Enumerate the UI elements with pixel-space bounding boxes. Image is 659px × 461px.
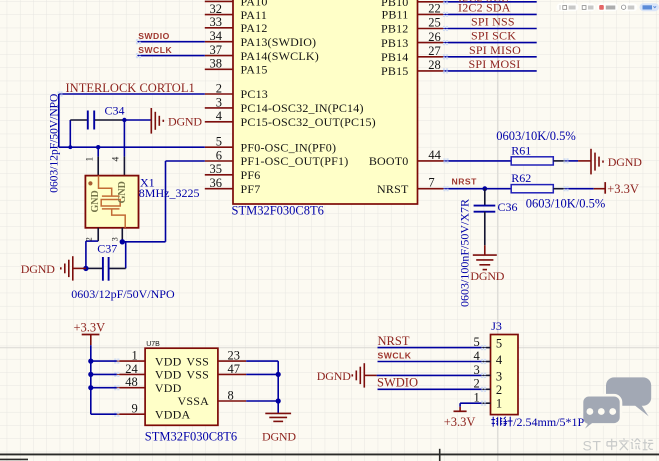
svg-text:1: 1 <box>132 349 138 363</box>
svg-text:SWDIO: SWDIO <box>138 31 170 41</box>
svg-text:DGND: DGND <box>168 115 202 129</box>
junction node DGND/C37 <box>83 266 88 271</box>
wire SWDIO to J3-2 <box>378 388 482 390</box>
pin 27 PB14 <box>381 44 443 64</box>
svg-text:2: 2 <box>216 81 222 95</box>
svg-text:PB12: PB12 <box>381 22 408 36</box>
pin 1 (J3) <box>474 391 503 411</box>
svg-text:0603/12pF/50V/NPO: 0603/12pF/50V/NPO <box>71 287 175 301</box>
wire net PB10 row <box>443 0 537 4</box>
svg-text:+3.3V: +3.3V <box>607 182 639 196</box>
wire C34 junction to DGND <box>124 119 150 121</box>
wire X1 pin2 lead <box>86 228 98 269</box>
pin label 1 (X1) <box>86 157 96 162</box>
svg-text:0603/10K/0.5%: 0603/10K/0.5% <box>526 197 606 211</box>
svg-text:PA14(SWCLK): PA14(SWCLK) <box>241 49 319 63</box>
wire C37 right leg <box>109 242 125 269</box>
designator J3 <box>491 319 502 333</box>
svg-text:R62: R62 <box>511 171 531 185</box>
pin 35 PF6 <box>205 162 261 182</box>
svg-text:NRST: NRST <box>377 182 409 196</box>
wire X1 pin3 to PF1 riser <box>122 161 165 242</box>
svg-text:DGND: DGND <box>21 262 55 276</box>
value label C36 <box>498 200 518 214</box>
svg-text:2: 2 <box>496 383 502 397</box>
wire SWCLK to J3-4 <box>378 361 482 363</box>
net label SWCLK <box>138 45 172 55</box>
wire vertical from INTERLOCK to PF0 net <box>58 94 60 147</box>
wire SWDIO <box>136 39 205 44</box>
svg-text:PB15: PB15 <box>381 64 408 78</box>
ground DGND right of R61 <box>591 149 642 175</box>
ground DGND below C36 <box>470 255 504 283</box>
svg-text:47: 47 <box>228 362 241 376</box>
svg-text:6: 6 <box>216 148 222 162</box>
wire net SPI MOSI <box>443 57 537 74</box>
wire BOOT0 to R61 <box>443 158 511 163</box>
svg-text:0603/12pF/50V/NPO: 0603/12pF/50V/NPO <box>49 94 61 193</box>
designator U7B <box>146 341 160 348</box>
svg-text:25: 25 <box>428 16 441 30</box>
junction node VDD rail 3 <box>88 385 93 390</box>
pin label 4 (X1) <box>112 157 122 162</box>
svg-text:STM32F030C8T6: STM32F030C8T6 <box>145 430 237 444</box>
wire net SPI NSS <box>443 15 537 32</box>
capacitor C37 <box>88 257 109 281</box>
net label I2C2 SCL (cut off at top) <box>458 0 509 5</box>
svg-text:PA11: PA11 <box>241 8 268 22</box>
svg-text:PF1-OSC_OUT(PF1): PF1-OSC_OUT(PF1) <box>241 154 349 168</box>
svg-text:3: 3 <box>216 95 222 109</box>
pin 32 PA11 <box>205 2 267 22</box>
pin 26 PB13 <box>381 30 443 50</box>
wire VDD row 2 <box>91 373 117 375</box>
wire PF0 OSC_IN net <box>59 146 205 148</box>
svg-text:1: 1 <box>86 157 96 162</box>
svg-text:VDDA: VDDA <box>155 407 191 421</box>
svg-text:VSSA: VSSA <box>178 394 210 408</box>
svg-text:28: 28 <box>428 58 441 72</box>
svg-text:PF0-OSC_IN(PF0): PF0-OSC_IN(PF0) <box>241 140 337 154</box>
svg-text:34: 34 <box>210 29 223 43</box>
svg-text:4: 4 <box>496 353 503 367</box>
pin 34 PA13(SWDIO) <box>205 29 316 49</box>
svg-text:SWCLK: SWCLK <box>378 351 412 361</box>
value label STM32F030C8T6 (U7B) <box>145 430 237 444</box>
value label 排针/2.54mm/5*1P (J3) <box>491 415 584 429</box>
junction node C34 left leg <box>68 145 72 149</box>
svg-text:VDD: VDD <box>155 381 182 395</box>
svg-text:R61: R61 <box>511 143 531 157</box>
pin label 2 (X1) <box>85 237 94 241</box>
net label SWCLK (J3) <box>378 351 412 361</box>
wire VDD row 3 <box>91 387 117 389</box>
ground DGND bottom-left <box>21 256 86 280</box>
svg-text:8: 8 <box>228 388 234 402</box>
svg-text:SWDIO: SWDIO <box>377 376 418 390</box>
wire VDD row 1 <box>91 360 117 362</box>
wire R61 to DGND <box>553 158 590 163</box>
junction node X1 pin3 / C37 / PF1 <box>120 239 125 244</box>
svg-text:GND: GND <box>117 181 128 203</box>
wire net SPI MISO <box>443 43 537 60</box>
wire R62 to +3.3V <box>553 186 604 191</box>
svg-text:8MHz_3225: 8MHz_3225 <box>139 186 200 200</box>
svg-text:1: 1 <box>496 397 502 411</box>
wire X1 pin1 vertical <box>97 147 99 175</box>
value label C34 <box>105 104 125 118</box>
wire VSS rail to ground <box>277 401 279 413</box>
svg-text:22: 22 <box>428 2 441 16</box>
svg-text:PF6: PF6 <box>241 168 261 182</box>
designator R62 <box>511 171 531 185</box>
svg-text:BOOT0: BOOT0 <box>369 154 409 168</box>
svg-text:PB14: PB14 <box>381 50 408 64</box>
svg-text:VDD: VDD <box>155 368 182 382</box>
wire +3.3V to J3-1 <box>460 403 481 411</box>
resistor R62 <box>511 185 553 193</box>
pin 21 PB10 <box>381 0 443 9</box>
pin 23 VSS (U7B) <box>186 349 246 369</box>
svg-text:32: 32 <box>210 2 223 16</box>
pin 9 VDDA (U7B) <box>114 402 190 422</box>
pin 25 PB12 <box>381 16 443 36</box>
pin 2 PC13 <box>205 81 268 101</box>
pin 31 PA10 <box>205 0 268 9</box>
value label 0603/12pF/50V/NPO (C34, vertical) <box>49 94 61 193</box>
wire VSS row 23 <box>246 361 278 374</box>
value label 8MHz_3225 <box>139 186 200 200</box>
value label 0603/100nF/50V/X7R (C36, vertical) <box>457 199 471 307</box>
net label NRST (J3) <box>378 334 410 348</box>
wire C36 top lead <box>484 189 486 206</box>
svg-text:9: 9 <box>132 402 138 416</box>
pin 2 (J3) <box>474 377 503 397</box>
svg-text:VDD: VDD <box>155 354 182 368</box>
pin 3 (J3) <box>474 363 503 384</box>
pin 44 BOOT0 <box>369 148 444 168</box>
svg-text:DGND: DGND <box>262 430 296 444</box>
crystal X1 body <box>85 176 138 228</box>
wire C34 left leg <box>69 120 71 147</box>
junction node VSS rail 47 <box>276 372 281 377</box>
pin 22 PB11 <box>381 2 443 22</box>
capacitor C36 <box>474 206 496 212</box>
wire INTERLOCK CORTOL1 to pin 2 <box>57 91 204 96</box>
pin 4 (J3) <box>474 349 503 367</box>
junction node NRST/C36/R62 <box>482 186 487 191</box>
svg-text:44: 44 <box>428 148 441 162</box>
svg-text:PC13: PC13 <box>241 87 268 101</box>
svg-text:NRST: NRST <box>452 176 478 186</box>
svg-text:+3.3V: +3.3V <box>444 415 476 429</box>
svg-text:J3: J3 <box>491 319 502 333</box>
junction node VDD rail 2 <box>88 372 93 377</box>
svg-text:PB11: PB11 <box>381 8 408 22</box>
designator X1 <box>140 175 155 189</box>
svg-text:27: 27 <box>428 44 441 58</box>
value label C37 <box>97 241 117 255</box>
power +3.3V below J3 <box>444 411 476 429</box>
value label STM32F030C8T6 (U7A) <box>232 204 324 218</box>
svg-text:C34: C34 <box>105 104 125 118</box>
svg-text:23: 23 <box>228 349 241 363</box>
svg-text:38: 38 <box>210 57 223 71</box>
net label SWDIO (J3) <box>377 376 418 390</box>
svg-text:33: 33 <box>210 15 223 29</box>
svg-text:36: 36 <box>210 176 223 190</box>
net label SWDIO <box>138 31 170 41</box>
svg-text:VSS: VSS <box>186 354 209 368</box>
pin 28 PB15 <box>381 58 443 78</box>
svg-text:ST: ST <box>583 438 602 454</box>
net label INTERLOCK CORTOL1 <box>66 81 195 95</box>
pin 5 (J3) <box>474 335 503 351</box>
svg-text:DGND: DGND <box>470 269 504 283</box>
power +3.3V right of R62 <box>605 182 639 196</box>
ground DGND below U7B <box>262 413 296 443</box>
svg-text:PA13(SWDIO): PA13(SWDIO) <box>241 35 317 49</box>
svg-text:SWCLK: SWCLK <box>138 45 172 55</box>
pin 36 PF7 <box>205 176 261 196</box>
IC U7A STM32F030C8T6 MCU body <box>233 0 418 204</box>
pin 47 VSS (U7B) <box>186 362 246 382</box>
ground DGND near C34 <box>151 108 202 134</box>
value label 0603/10K/0.5% (R61) <box>496 129 576 143</box>
svg-text:5: 5 <box>216 135 222 149</box>
wire X1 pin4 vertical <box>123 120 125 176</box>
svg-text:3: 3 <box>496 369 502 383</box>
designator R61 <box>511 143 531 157</box>
wire NRST to junction <box>443 186 484 191</box>
svg-text:SPI MOSI: SPI MOSI <box>469 57 521 71</box>
wire C36 bottom lead <box>484 212 486 255</box>
svg-text:26: 26 <box>428 30 441 44</box>
svg-text:PC15-OSC32_OUT(PC15): PC15-OSC32_OUT(PC15) <box>241 115 376 129</box>
wire NRST to J3-5 <box>378 347 482 349</box>
pin 24 VDD (U7B) <box>114 362 181 382</box>
power +3.3V above U7B <box>74 321 106 346</box>
svg-text:0603/10K/0.5%: 0603/10K/0.5% <box>496 129 576 143</box>
pin 37 PA14(SWCLK) <box>205 43 319 63</box>
resistor R61 <box>511 157 553 165</box>
svg-text:48: 48 <box>125 375 138 389</box>
svg-text:5: 5 <box>496 337 502 351</box>
wire PF1 OSC_OUT net <box>166 160 205 162</box>
ground DGND left of J3 <box>317 363 377 387</box>
svg-text:35: 35 <box>210 162 223 176</box>
junction node C34/DGND/X1-4 <box>122 118 126 122</box>
wire DGND to J3-3 <box>377 374 482 376</box>
svg-text:NRST: NRST <box>378 334 410 348</box>
svg-text:DGND: DGND <box>317 369 351 383</box>
wire X1 pin3 lead <box>121 228 123 242</box>
wire SWCLK <box>136 53 205 58</box>
pin 1 VDD (U7B) <box>114 349 181 369</box>
pin label 3 (X1) <box>110 237 119 241</box>
svg-text:PA15: PA15 <box>241 63 268 77</box>
svg-text:7: 7 <box>428 176 434 190</box>
svg-text:4: 4 <box>112 157 122 162</box>
pin 4 PC15-OSC32_OUT(PC15) <box>205 109 376 129</box>
pin 7 NRST <box>377 176 443 196</box>
svg-text:C36: C36 <box>498 200 518 214</box>
svg-text:24: 24 <box>125 362 138 376</box>
value label 0603/12pF/50V/NPO (C37) <box>71 287 175 301</box>
junction node VDD rail 1 <box>88 359 93 364</box>
pin 5 PF0-OSC_IN(PF0) <box>205 135 336 155</box>
svg-text:INTERLOCK CORTOL1: INTERLOCK CORTOL1 <box>66 81 195 95</box>
pin 8 VSSA (U7B) <box>178 388 247 408</box>
svg-text:2: 2 <box>85 237 94 241</box>
svg-text:+3.3V: +3.3V <box>74 321 106 335</box>
capacitor C34 <box>70 111 124 130</box>
junction node at X1 pin1 <box>96 145 100 149</box>
pin 33 PA12 <box>205 15 268 35</box>
svg-text:VSS: VSS <box>186 368 209 382</box>
svg-text:4: 4 <box>216 109 223 123</box>
wire net SPI SCK <box>443 29 537 46</box>
junction node VSS rail 8 <box>276 398 281 403</box>
wire junction to R62 <box>485 188 511 190</box>
IC U7B STM32F030C8T6 power pins body <box>145 348 218 425</box>
svg-text:PA12: PA12 <box>241 21 268 35</box>
pin 6 PF1-OSC_OUT(PF1) <box>205 148 349 168</box>
wire VSS row 47 <box>246 373 278 375</box>
svg-text:PF7: PF7 <box>241 182 261 196</box>
svg-text:37: 37 <box>210 43 223 57</box>
connector J3 body <box>491 335 519 415</box>
svg-text:STM32F030C8T6: STM32F030C8T6 <box>232 204 324 218</box>
svg-text:SPI SCK: SPI SCK <box>471 29 516 43</box>
wire VSSA row 8 <box>246 374 278 401</box>
svg-text:SPI MISO: SPI MISO <box>469 43 521 57</box>
svg-text:PC14-OSC32_IN(PC14): PC14-OSC32_IN(PC14) <box>241 101 364 115</box>
svg-text:0603/100nF/50V/X7R: 0603/100nF/50V/X7R <box>457 199 471 307</box>
svg-text:/2.54mm/5*1P: /2.54mm/5*1P <box>513 415 584 429</box>
pin 38 PA15 <box>205 57 268 77</box>
net label NRST <box>452 176 478 186</box>
wire +3.3V vertical rail <box>91 345 117 414</box>
svg-text:U7B: U7B <box>146 341 160 348</box>
svg-text:I2C2 SCL: I2C2 SCL <box>458 0 509 5</box>
wire net I2C2 SDA <box>443 0 537 17</box>
pin 48 VDD (U7B) <box>114 375 181 395</box>
svg-text:C37: C37 <box>97 241 117 255</box>
svg-text:SPI NSS: SPI NSS <box>471 15 515 29</box>
pin 3 PC14-OSC32_IN(PC14) <box>205 95 364 115</box>
value label 0603/10K/0.5% (R62) <box>526 197 606 211</box>
svg-text:GND: GND <box>90 190 101 212</box>
svg-text:PB13: PB13 <box>381 36 408 50</box>
svg-text:DGND: DGND <box>608 155 642 169</box>
